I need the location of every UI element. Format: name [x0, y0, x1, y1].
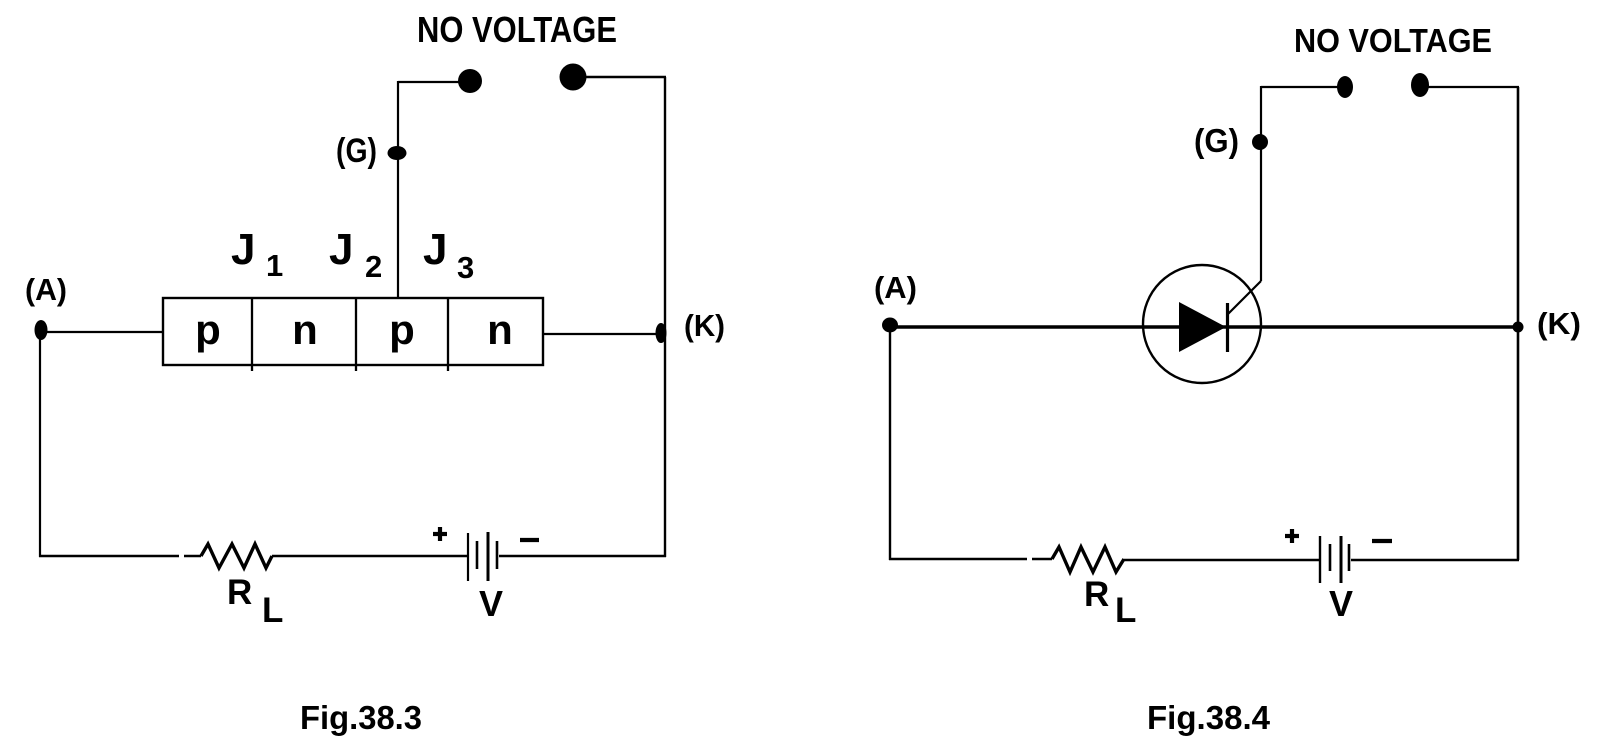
wire main horizontal A to K (Fig.38.4) — [890, 325, 1518, 329]
svg-text:NO VOLTAGE: NO VOLTAGE — [1294, 22, 1492, 59]
thyristor anode triangle (Fig.38.4) — [1179, 302, 1226, 352]
svg-text:R: R — [1084, 575, 1109, 614]
wire bottom left segment 2 (Fig.38.4) — [1032, 558, 1052, 560]
label + polarity (Fig.38.4) — [1285, 529, 1299, 543]
battery plate long 2 (Fig.38.3) — [487, 532, 490, 581]
svg-text:Fig.38.3: Fig.38.3 — [300, 699, 422, 736]
battery plate long 1 (Fig.38.4) — [1319, 536, 1321, 583]
svg-text:(G): (G) — [1194, 122, 1239, 159]
node K dot (Fig.38.4) — [1513, 322, 1524, 333]
battery plate short 2 (Fig.38.4) — [1348, 544, 1351, 571]
switch terminal dot right (Fig.38.3) — [560, 64, 587, 91]
label + polarity (Fig.38.3) — [433, 527, 447, 541]
svg-text:n: n — [487, 306, 513, 353]
resistor RL zigzag (Fig.38.3) — [201, 544, 272, 568]
svg-text:V: V — [1329, 583, 1353, 624]
wire right vertical from switch to bottom (Fig.38.4) — [1517, 87, 1520, 560]
svg-text:L: L — [1115, 591, 1136, 630]
svg-text:(A): (A) — [25, 272, 67, 307]
node G dot (Fig.38.3) — [388, 146, 407, 160]
svg-text:L: L — [262, 591, 283, 630]
label - polarity (Fig.38.3) — [520, 538, 539, 542]
svg-text:(K): (K) — [684, 308, 725, 343]
wire switch right lead (Fig.38.3) — [584, 76, 666, 78]
wire bottom right segment (Fig.38.4) — [1351, 559, 1519, 561]
svg-text:n: n — [292, 306, 318, 353]
wire cathode lead (Fig.38.3) — [543, 333, 658, 335]
node A dot (Fig.38.4) — [882, 318, 898, 333]
node K dot (Fig.38.3) — [656, 323, 667, 343]
switch terminal dot left (Fig.38.4) — [1337, 76, 1353, 98]
label - polarity (Fig.38.4) — [1372, 539, 1392, 543]
svg-text:p: p — [195, 306, 221, 353]
svg-text:(A): (A) — [874, 270, 917, 305]
wire right vertical from switch to bottom (Fig.38.3) — [664, 77, 666, 557]
svg-text:p: p — [389, 306, 415, 353]
wire bottom left segment (Fig.38.3) — [39, 555, 179, 557]
battery plate short 1 (Fig.38.3) — [476, 541, 479, 569]
wire left vertical (Fig.38.3) — [39, 336, 41, 557]
wire switch left lead (Fig.38.4) — [1261, 86, 1339, 88]
battery plate short 1 (Fig.38.4) — [1329, 544, 1332, 571]
svg-text:J: J — [231, 225, 255, 274]
wire bottom right segment (Fig.38.3) — [499, 555, 666, 557]
battery plate short 2 (Fig.38.3) — [496, 541, 499, 569]
thyristor gate lead diagonal (Fig.38.4) — [1228, 281, 1261, 314]
junction J3 divider line — [447, 298, 449, 371]
svg-text:2: 2 — [365, 249, 382, 284]
svg-text:3: 3 — [457, 250, 474, 285]
svg-text:(G): (G) — [336, 132, 377, 170]
node G dot (Fig.38.4) — [1252, 134, 1268, 150]
switch terminal dot right (Fig.38.4) — [1411, 73, 1429, 97]
wire bottom middle segment (Fig.38.3) — [272, 555, 467, 557]
battery plate long 1 (Fig.38.3) — [467, 533, 469, 581]
thyristor cathode bar (Fig.38.4) — [1226, 303, 1229, 352]
svg-text:J: J — [329, 225, 353, 274]
switch terminal dot left (Fig.38.3) — [458, 69, 482, 93]
svg-text:V: V — [479, 583, 503, 624]
battery plate long 2 (Fig.38.4) — [1340, 536, 1343, 583]
battery V (Fig.38.3) — [468, 532, 497, 581]
battery V (Fig.38.4) — [1320, 536, 1349, 583]
svg-text:(K): (K) — [1537, 306, 1581, 341]
svg-text:R: R — [227, 573, 252, 612]
wire gate vertical (Fig.38.4) — [1260, 86, 1262, 281]
wire switch right lead (Fig.38.4) — [1427, 86, 1519, 88]
wire left vertical (Fig.38.4) — [889, 327, 891, 560]
wire bottom left segment 2 (Fig.38.3) — [184, 555, 201, 557]
node A dot (Fig.38.3) — [35, 320, 48, 340]
thyristor SCR circle (Fig.38.4) — [1143, 265, 1261, 383]
resistor RL zigzag (Fig.38.4) — [1052, 547, 1124, 572]
junction J1 divider line — [251, 298, 253, 371]
svg-text:1: 1 — [266, 248, 283, 283]
svg-text:J: J — [423, 225, 447, 274]
wire bottom left segment (Fig.38.4) — [889, 558, 1027, 560]
wire bottom middle segment (Fig.38.4) — [1124, 559, 1319, 561]
svg-text:NO VOLTAGE: NO VOLTAGE — [417, 9, 617, 50]
svg-text:Fig.38.4: Fig.38.4 — [1147, 699, 1271, 736]
wire anode lead (Fig.38.3) — [44, 331, 163, 333]
wire switch left lead (Fig.38.3) — [398, 81, 460, 83]
four-layer device body box (Fig.38.3) — [163, 298, 543, 365]
junction J2 divider line — [355, 298, 357, 371]
wire gate vertical (Fig.38.3) — [397, 81, 399, 298]
